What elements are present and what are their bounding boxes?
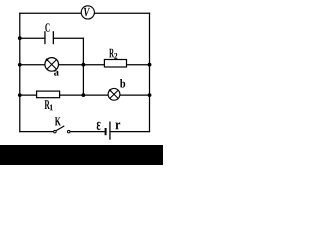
battery positive plate (long thin): [109, 122, 110, 140]
resistor R1 label: [45, 100, 50, 109]
switch K right contact: [67, 130, 70, 133]
capacitor C right plate: [53, 31, 54, 44]
wire: top wire from left corner to right corner: [19, 12, 150, 14]
resistor R1 body: [37, 91, 60, 98]
lamp b label: [120, 79, 125, 88]
bottom black bar: [0, 145, 163, 165]
wire: left vertical wire: [19, 13, 21, 133]
wire: bottom row left segment: [19, 131, 54, 133]
wire: bottom row middle segment: [70, 131, 105, 133]
battery negative plate (short thick): [105, 128, 107, 135]
battery internal resistance label r: [115, 122, 120, 129]
switch K lever: [56, 126, 64, 131]
node: middle wire / lamp-a row junction: [82, 63, 86, 67]
resistor R2 label: [109, 49, 114, 58]
battery emf label: [97, 122, 101, 130]
resistor R2 body: [104, 60, 126, 68]
node: left wire / lamp-a row junction: [18, 63, 22, 67]
lamp b cap blob: [109, 89, 111, 91]
wire: R1 / lamp-b row: [20, 94, 150, 96]
node: middle wire / R1 row junction: [82, 93, 86, 97]
lamp a cross line 2: [47, 60, 57, 70]
switch K left contact: [54, 130, 57, 133]
capacitor C left plate: [44, 31, 45, 44]
wire: capacitor row left segment: [20, 37, 45, 39]
node: left wire / R1 row junction: [18, 93, 22, 97]
lamp a circle: [45, 58, 59, 72]
lamp b cross line 1: [110, 90, 118, 98]
voltmeter U1 circle: [81, 6, 94, 19]
lamp b cross line 2: [110, 90, 118, 98]
wire: lamp-a / R2 row: [20, 64, 150, 66]
lamp a cap blob: [46, 58, 49, 61]
lamp b circle: [108, 88, 120, 100]
lamp a cross line 1: [47, 60, 57, 70]
node: left wire / capacitor row junction: [18, 36, 22, 40]
wire: capacitor row right segment: [54, 37, 84, 39]
wire: bottom row right segment: [111, 131, 151, 133]
wire: right vertical wire: [149, 13, 151, 133]
capacitor label C: [45, 23, 49, 31]
node: right wire / lamp-b row junction: [148, 93, 152, 97]
switch label K: [55, 117, 61, 125]
voltmeter label V: [84, 8, 90, 16]
wire: middle vertical wire: [82, 38, 84, 96]
lamp a label: [54, 71, 59, 76]
node: right wire / R2 row junction: [148, 63, 152, 67]
